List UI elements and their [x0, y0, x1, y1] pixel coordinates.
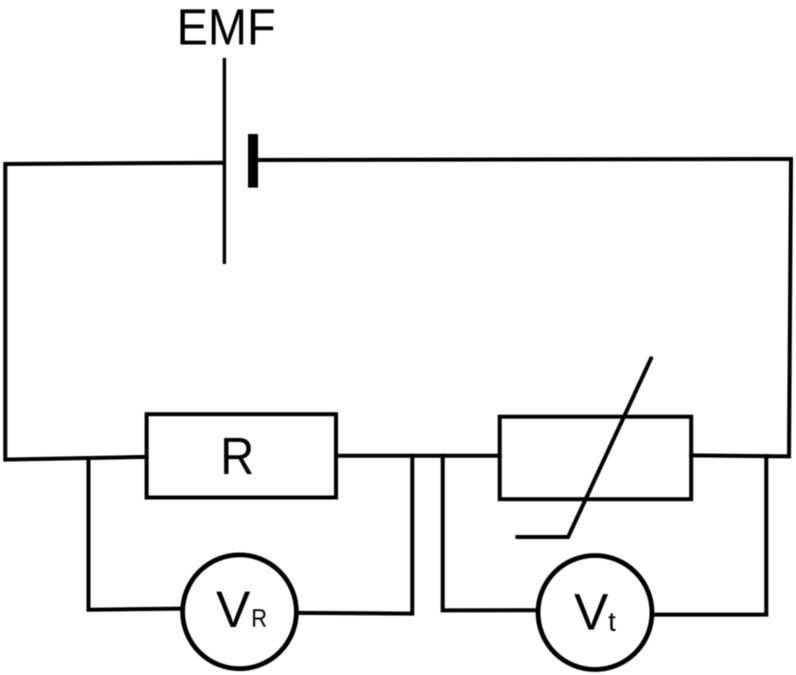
svg-text:V: V: [574, 583, 609, 641]
svg-text:R: R: [220, 428, 254, 486]
svg-text:V: V: [216, 580, 251, 638]
svg-text:EMF: EMF: [177, 0, 276, 56]
